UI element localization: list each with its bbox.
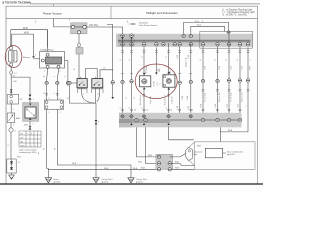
legend arrow text bbox=[138, 22, 158, 27]
diode box bbox=[7, 157, 22, 174]
wire: box right low bbox=[171, 168, 194, 170]
ticks under lamp boxes bbox=[143, 95, 170, 97]
label center ground 2 bbox=[136, 178, 148, 184]
svg-text:W-B: W-B bbox=[141, 167, 146, 169]
table caption bbox=[19, 149, 38, 155]
wire: band2 to rear light box bbox=[169, 127, 194, 140]
svg-text:ground: ground bbox=[54, 181, 61, 184]
wire: fuse bottom down bbox=[78, 34, 80, 48]
connector on mid feed bbox=[111, 81, 114, 84]
fuse TAIL top bbox=[71, 23, 88, 34]
header divider bbox=[110, 6, 112, 18]
band2 left block darker bbox=[119, 113, 132, 128]
plug on battery wire bbox=[10, 89, 13, 92]
svg-text:W-B: W-B bbox=[148, 155, 153, 157]
band1 bus upper bbox=[118, 39, 251, 41]
inline connector C-2 bbox=[178, 81, 181, 84]
connector row circles bbox=[45, 81, 48, 84]
junction J1-11 on bus bbox=[201, 43, 204, 46]
svg-text:Marker LH: Marker LH bbox=[242, 92, 244, 102]
svg-text:o: o bbox=[35, 145, 36, 147]
svg-text:Power Source: Power Source bbox=[43, 12, 62, 16]
wires below connector row bbox=[47, 85, 58, 100]
svg-text:o: o bbox=[27, 145, 28, 147]
relay pin labels bbox=[35, 50, 61, 73]
wire: ground bus right bbox=[48, 168, 158, 170]
front ground bbox=[45, 178, 51, 183]
svg-text:Marker RH: Marker RH bbox=[219, 92, 221, 102]
svg-text:Taillight and Illumination: Taillight and Illumination bbox=[146, 11, 178, 15]
svg-text:W-B: W-B bbox=[228, 130, 233, 132]
socket polygon bbox=[186, 147, 193, 160]
ground under diode bbox=[9, 175, 15, 179]
wire color labels right bbox=[200, 59, 239, 61]
tiny labels left column bbox=[13, 80, 62, 127]
center ground 1 bbox=[93, 178, 99, 183]
vertical wires right section bbox=[203, 34, 248, 132]
connector oval on battery wire bbox=[10, 71, 13, 75]
top-right box around band bbox=[200, 31, 253, 48]
wire: box right to socket bbox=[170, 154, 186, 157]
stub band2 to wb wire bbox=[219, 127, 221, 132]
svg-text:3: 3 bbox=[44, 71, 45, 73]
wire: feed to fuse bbox=[54, 19, 72, 27]
header band separator bbox=[6, 18, 258, 20]
red ellipse center bbox=[135, 64, 177, 99]
svg-text:Daytime R.: Daytime R. bbox=[185, 57, 188, 67]
svg-text:G-W: G-W bbox=[219, 66, 221, 70]
svg-text:ground: ground bbox=[102, 181, 109, 184]
svg-text:TAIL: TAIL bbox=[20, 140, 24, 143]
fuse symbol box bbox=[7, 113, 15, 123]
svg-text:B-G: B-G bbox=[195, 21, 199, 23]
svg-text:W-B: W-B bbox=[138, 162, 143, 164]
wire: relay out left bbox=[47, 68, 48, 81]
svg-text:(G): (G) bbox=[157, 82, 159, 85]
svg-text:W-B: W-B bbox=[250, 65, 252, 70]
socket diagonal top bbox=[189, 142, 194, 147]
header rule bbox=[30, 3, 260, 5]
svg-text:W-B: W-B bbox=[104, 168, 109, 170]
inline connector C-4 bbox=[201, 79, 204, 82]
tiny labels above band2 bbox=[135, 108, 194, 111]
junction J1-5 on bus bbox=[142, 43, 145, 46]
svg-text:G-W: G-W bbox=[187, 96, 189, 100]
svg-text:SW: SW bbox=[20, 133, 23, 135]
svg-text:Side Marker: Side Marker bbox=[165, 94, 167, 105]
svg-text:( ) : w/ Daytime Running Light: ( ) : w/ Daytime Running Light bbox=[222, 8, 253, 11]
wire: to diode box bbox=[10, 132, 12, 159]
DRL relay gray box bbox=[23, 103, 39, 122]
fusible link box FL MAIN bbox=[7, 95, 23, 104]
band1 block plugs bbox=[121, 37, 132, 44]
svg-text:Rear combination: Rear combination bbox=[227, 150, 244, 153]
socket diagonal bottom bbox=[189, 161, 194, 166]
svg-text:G-W: G-W bbox=[215, 104, 217, 108]
DRL relay area: plug above bbox=[29, 95, 32, 100]
rear combination light box bbox=[194, 142, 255, 170]
wire: battery loop inner bbox=[12, 34, 34, 56]
junction J1-6 on bus bbox=[155, 43, 158, 46]
wire: fuse to right corner bbox=[86, 27, 122, 34]
svg-text:2: 2 bbox=[35, 55, 36, 57]
wire below DRL relay bbox=[29, 121, 31, 126]
svg-text:W-B: W-B bbox=[175, 167, 180, 169]
switch right feed wire bbox=[100, 70, 113, 79]
band1 bus lower bbox=[118, 41, 251, 43]
wire: relay feed bbox=[34, 30, 48, 59]
wire: band2 drop to box row2 bbox=[146, 127, 159, 163]
wire: third vertical to switch bbox=[68, 83, 77, 86]
svg-text:G-W: G-W bbox=[201, 104, 203, 108]
connector oval on fuse drop bbox=[78, 43, 81, 47]
junction J1-9 on bus bbox=[178, 43, 181, 46]
svg-text:Light RH: Light RH bbox=[149, 96, 152, 104]
svg-text:1J: 1J bbox=[67, 98, 69, 100]
svg-text:Front Side: Front Side bbox=[230, 92, 233, 102]
junction J1-2 on bus bbox=[130, 34, 133, 37]
svg-text:light: light bbox=[194, 153, 198, 156]
band2 bus line bbox=[119, 119, 242, 121]
inline connector C-7 bbox=[238, 79, 241, 82]
label front ground bbox=[54, 178, 61, 184]
svg-text:G-W: G-W bbox=[188, 55, 190, 59]
svg-text:Center No.1: Center No.1 bbox=[136, 178, 148, 181]
label socket bbox=[194, 151, 204, 156]
svg-text:Light LH: Light LH bbox=[171, 96, 174, 104]
inline connector C-3 bbox=[189, 80, 192, 83]
wire: relay right to third vertical bbox=[65, 61, 68, 82]
svg-text:W-B: W-B bbox=[23, 27, 28, 30]
ticks on E-block outputs bbox=[45, 94, 58, 96]
wire: below fuse bbox=[10, 123, 12, 128]
label rear combination bbox=[227, 150, 244, 156]
diamond connector top of box bbox=[227, 30, 231, 34]
wire: box right mid bbox=[171, 163, 194, 165]
svg-text:ground: ground bbox=[136, 181, 143, 184]
tiny wire color labels texture middle bbox=[120, 55, 252, 110]
bottom heavy rule bbox=[0, 183, 263, 185]
wires below connector block bbox=[47, 110, 58, 169]
svg-text:W-B: W-B bbox=[175, 162, 180, 164]
svg-text:G-W: G-W bbox=[182, 96, 184, 100]
connector on feed 122.5 bbox=[121, 80, 124, 83]
svg-text:Front Side: Front Side bbox=[204, 92, 207, 102]
junction J1-7 on bus bbox=[162, 43, 165, 46]
wire: B-G to top right box bbox=[184, 22, 229, 33]
svg-text:8 TOYOTA TACOMA: 8 TOYOTA TACOMA bbox=[3, 1, 32, 5]
header tick bbox=[53, 4, 55, 6]
band2 lower bus bbox=[119, 121, 170, 123]
front ground wire bbox=[47, 169, 49, 178]
svg-text:W-B: W-B bbox=[197, 146, 202, 148]
band1 left block darker bbox=[118, 34, 135, 47]
svg-text:W-B: W-B bbox=[133, 168, 138, 170]
junction box small bbox=[76, 48, 83, 55]
wire: left connector down and over bbox=[70, 85, 97, 103]
bulb circle in socket bbox=[188, 150, 190, 152]
inline connector C-1 bbox=[130, 80, 133, 83]
wire: right drop to box bbox=[220, 132, 248, 142]
legend arrow symbol bbox=[129, 23, 136, 25]
junction J1-3 on bus bbox=[121, 43, 124, 46]
wires below switches bbox=[82, 88, 100, 103]
inline connector C-8 bbox=[246, 79, 249, 82]
wire: B-G 2 bbox=[191, 26, 225, 34]
band2 lower plugs bbox=[130, 123, 169, 125]
svg-text:Taillight Relay: Taillight Relay bbox=[40, 49, 54, 52]
grid tick bbox=[68, 19, 70, 21]
gray band 2 bbox=[119, 113, 242, 128]
junction J1-17 on bus bbox=[189, 34, 192, 37]
junction J1-15 on bus bbox=[246, 43, 249, 46]
svg-text:: See Power Source: : See Power Source bbox=[138, 24, 158, 27]
right column upper labels bbox=[204, 65, 252, 101]
junction J1-12 on bus bbox=[216, 43, 219, 46]
junction J1-14 on bus bbox=[238, 43, 241, 46]
tiny labels near switches bbox=[73, 68, 106, 96]
junction J1-8 on bus bbox=[173, 43, 176, 46]
inline connector C-5 bbox=[216, 79, 219, 82]
bottom center connector box bbox=[156, 154, 173, 171]
svg-text:o: o bbox=[31, 145, 32, 147]
svg-text:Side Marker: Side Marker bbox=[140, 94, 142, 105]
wire: diode to ground bbox=[11, 173, 13, 175]
light control switch L bbox=[77, 79, 87, 88]
svg-text:< > : w/o Daytime Running Ligh: < > : w/o Daytime Running Light bbox=[222, 11, 255, 14]
svg-text:Front: Front bbox=[54, 178, 59, 181]
connector block E bbox=[45, 100, 64, 110]
connector circle bbox=[9, 128, 13, 132]
svg-text:Light control switch: Light control switch bbox=[19, 149, 38, 152]
vertical wires middle section bbox=[123, 36, 191, 127]
battery red ellipse bbox=[5, 46, 22, 68]
svg-text:Center No.2: Center No.2 bbox=[102, 178, 114, 181]
labels W-B around box bbox=[138, 155, 180, 169]
inline connector C-6 bbox=[227, 79, 230, 82]
battery bbox=[9, 46, 18, 67]
junction J1-4 on bus bbox=[130, 43, 133, 46]
svg-text:continuity (w/ DRL): continuity (w/ DRL) bbox=[19, 151, 37, 154]
application table bbox=[19, 131, 41, 147]
page background bbox=[0, 0, 263, 192]
gray band 1 bbox=[116, 34, 253, 47]
svg-text:HEAD: HEAD bbox=[20, 144, 26, 147]
long vertical labels below lamp boxes bbox=[140, 57, 188, 106]
svg-text:G-W: G-W bbox=[205, 66, 207, 70]
tiny vertical labels middle bbox=[126, 65, 189, 100]
legend note top right bbox=[222, 8, 255, 16]
wire: long center vertical to ground bbox=[95, 103, 97, 178]
plug connector on center vertical bbox=[95, 120, 98, 124]
switch shell L bbox=[78, 89, 88, 93]
wire into DRL relay bbox=[29, 100, 31, 103]
svg-text:15A TAIL: 15A TAIL bbox=[89, 24, 99, 27]
svg-text:: Sheilded: : Sheilded bbox=[138, 22, 149, 24]
junction J1-1 on bus bbox=[121, 34, 124, 37]
band2 diamond connectors bbox=[121, 114, 193, 118]
bulb rect bbox=[205, 148, 222, 158]
wire: down to switch bbox=[78, 54, 80, 79]
svg-text:(G-W): (G-W) bbox=[154, 81, 156, 87]
wire: band2 drop to box row1 bbox=[137, 127, 159, 157]
svg-text:G-W: G-W bbox=[177, 106, 179, 110]
svg-text:Battery: Battery bbox=[23, 56, 31, 59]
plug at end of mid stub bbox=[155, 73, 158, 75]
switch shell R bbox=[92, 89, 104, 93]
wire: bulb to label bbox=[223, 152, 227, 154]
svg-text:W-B: W-B bbox=[24, 31, 29, 34]
junction J1-10 on bus bbox=[189, 43, 192, 46]
svg-text:W-B: W-B bbox=[72, 163, 77, 165]
svg-text:*1 : w/ DRL *2 : w/o DRL: *1 : w/ DRL *2 : w/o DRL bbox=[222, 15, 248, 17]
tiny labels near relay outputs bbox=[43, 75, 66, 94]
band2 connectors on bus bbox=[135, 118, 138, 121]
wire: mid feed down bbox=[107, 25, 113, 98]
wire: below FL bbox=[10, 104, 12, 113]
connector left of switch bbox=[68, 81, 71, 84]
svg-text:light RH: light RH bbox=[227, 153, 235, 156]
side marker lamp R bbox=[163, 72, 175, 90]
light control switch R bbox=[92, 79, 103, 88]
svg-text:1J: 1J bbox=[18, 162, 20, 164]
frame border bbox=[6, 6, 258, 184]
svg-text:G-W: G-W bbox=[177, 55, 179, 59]
svg-text:5: 5 bbox=[60, 71, 61, 73]
junction J1-13 on bus bbox=[227, 43, 230, 46]
taillight relay TAILL bbox=[40, 52, 65, 69]
wire: DRL feed from battery bbox=[11, 77, 30, 95]
junction J1-16 on bus bbox=[182, 34, 185, 37]
plug above table bbox=[29, 126, 32, 129]
label center ground 1 bbox=[102, 178, 114, 184]
tick marks on verticals bbox=[121, 51, 249, 111]
wire: bottom long W-B to center bbox=[57, 165, 131, 178]
wire: relay out right bbox=[57, 68, 58, 81]
table marks bbox=[20, 133, 36, 147]
switch bridge wire bbox=[85, 69, 97, 79]
svg-text:B-G: B-G bbox=[197, 25, 201, 27]
plug on relay left feed bbox=[32, 56, 35, 58]
wire: battery to bus loop outer bbox=[11, 30, 48, 48]
center ground 2 bbox=[128, 178, 134, 183]
svg-text:G-W: G-W bbox=[188, 106, 190, 110]
wire: battery down bbox=[10, 66, 12, 95]
side marker lamp L bbox=[140, 73, 151, 90]
